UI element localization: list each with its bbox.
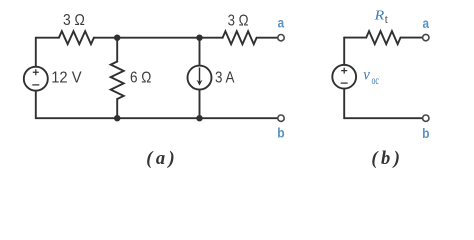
svg-text:a: a — [278, 16, 285, 31]
svg-text:v: v — [363, 67, 370, 84]
svg-text:3 Ω: 3 Ω — [228, 12, 249, 29]
svg-text:3 A: 3 A — [215, 69, 235, 86]
svg-text:R: R — [373, 8, 384, 23]
svg-text:12 V: 12 V — [51, 69, 82, 86]
svg-text:a: a — [423, 16, 430, 31]
svg-text:6 Ω: 6 Ω — [130, 70, 151, 87]
svg-text:(a): (a) — [146, 149, 175, 169]
svg-text:t: t — [385, 12, 389, 26]
svg-text:3 Ω: 3 Ω — [63, 12, 85, 29]
svg-text:b: b — [277, 126, 284, 141]
svg-text:b: b — [422, 126, 429, 141]
svg-text:(b): (b) — [371, 149, 400, 169]
svg-text:oc: oc — [372, 73, 379, 87]
